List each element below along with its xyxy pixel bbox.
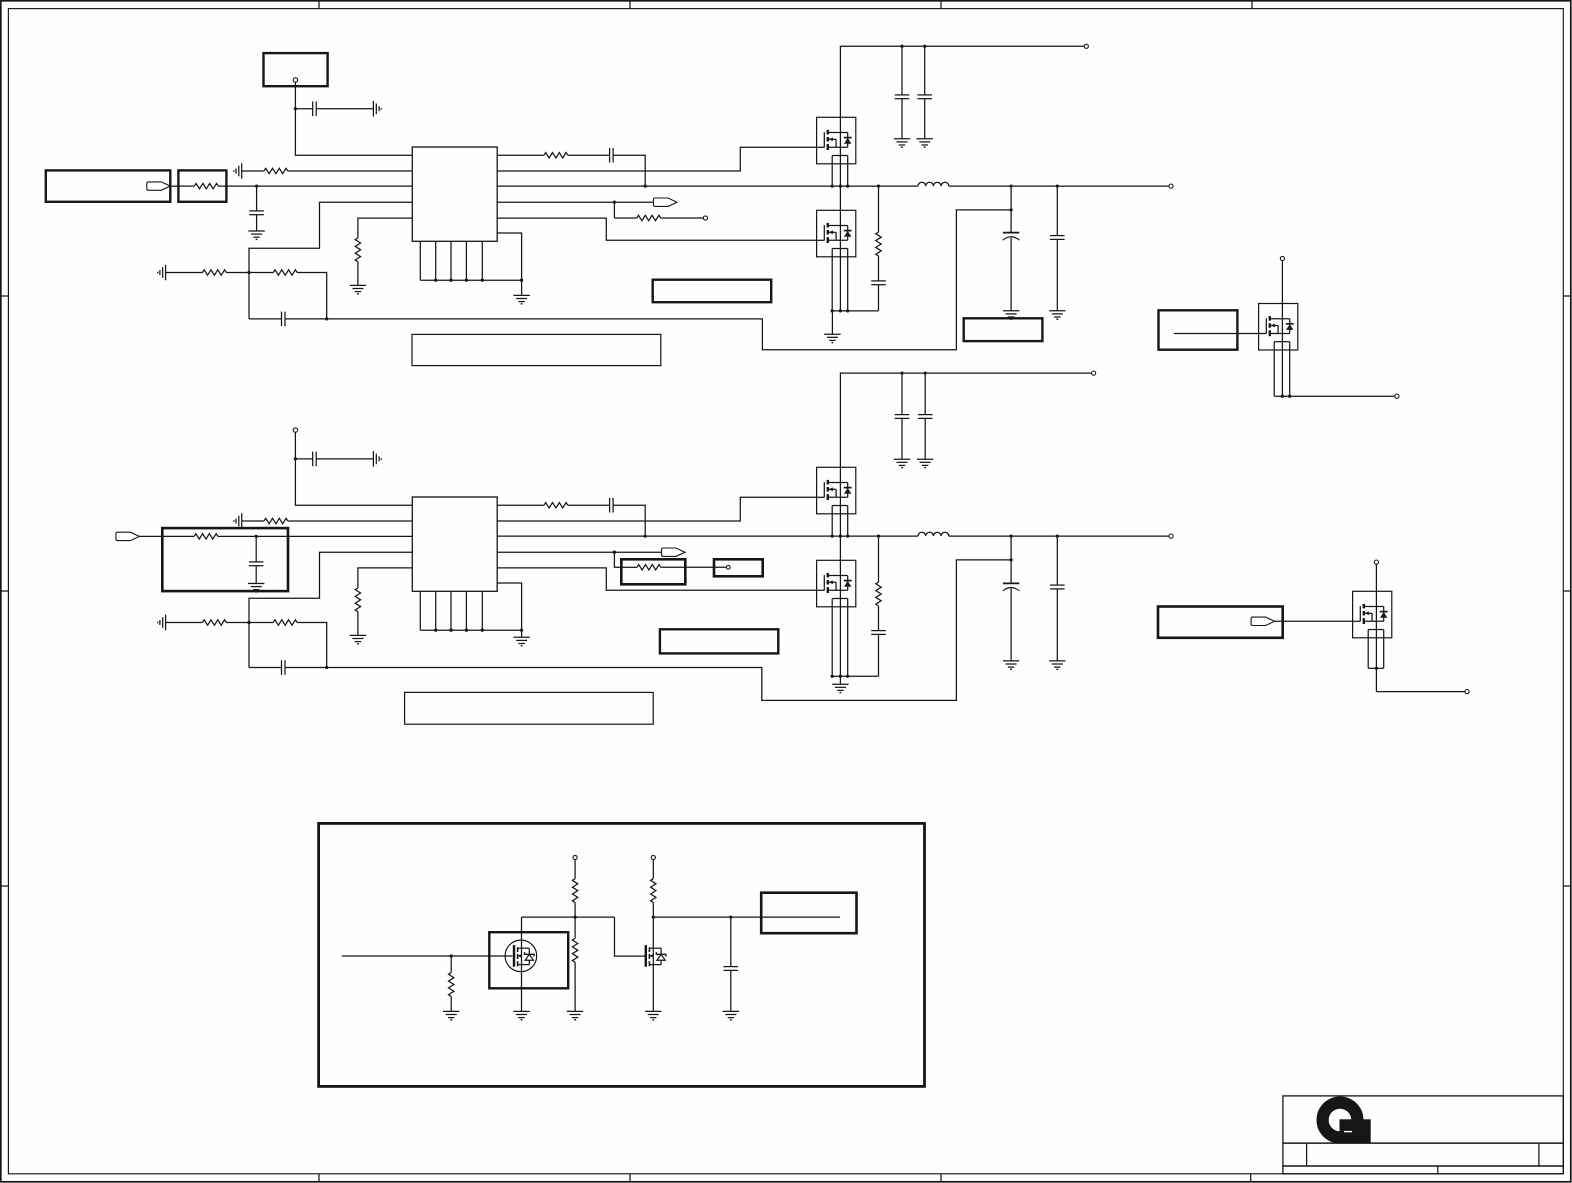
- wire T11 to R10: [574, 860, 576, 879]
- wire Q8 source to T10: [1376, 691, 1465, 693]
- wire gate line Q7: [1174, 333, 1259, 335]
- wire node K to C10: [730, 917, 732, 967]
- node A junction: [294, 107, 297, 110]
- IC bottom pins: [419, 241, 421, 280]
- wire chassis to R3a: [166, 622, 203, 624]
- Q7 source junctions: [1281, 395, 1284, 398]
- resistor R28: [876, 582, 881, 606]
- label box LB2: [964, 318, 1043, 341]
- wire to R7: [614, 217, 636, 219]
- wire R6 to C4a: [568, 504, 610, 506]
- node D junctiona: [325, 666, 328, 669]
- wire chassis to R1: [242, 170, 264, 172]
- capacitor C3: [281, 312, 283, 327]
- power mosfet module Q3: [817, 467, 856, 514]
- wire R2 to IC pin3: [218, 185, 412, 187]
- wire output2 to C29: [1056, 536, 1058, 585]
- wire Q8 center down: [1375, 630, 1377, 692]
- label box LB6: [761, 893, 856, 934]
- capacitor C3a: [281, 660, 283, 675]
- label box LB4: [1159, 310, 1238, 349]
- wire output to C9: [1056, 186, 1058, 236]
- ground bus under ICa: [420, 629, 521, 631]
- capacitor C29: [1050, 584, 1065, 586]
- wire C4 down to switch node: [613, 155, 645, 186]
- terminal T7: [1280, 256, 1284, 260]
- wire T5 to U2 pin1: [295, 432, 412, 505]
- wire T9 to Q8 drain: [1375, 564, 1377, 591]
- note box NB1: [412, 334, 661, 365]
- border zone tick left 1: [1, 295, 9, 297]
- wire switch node: [497, 185, 918, 187]
- node F junctiona: [644, 534, 647, 537]
- ground GND1: [248, 230, 264, 232]
- net label tag PG: [654, 198, 678, 206]
- wire R11 to ground: [574, 962, 576, 1011]
- wire input rail 2: [840, 373, 1091, 467]
- wire L2 to output: [949, 535, 1169, 537]
- title block row3: [1283, 1166, 1563, 1174]
- resistor R27: [637, 565, 661, 570]
- terminal T10: [1465, 690, 1469, 694]
- mosfet box Q5 outline: [489, 932, 568, 988]
- node B junction: [255, 184, 258, 187]
- border zone tick right 1: [1563, 295, 1571, 297]
- IC bottom pinsa: [419, 591, 421, 630]
- bus junctions: [434, 279, 437, 282]
- wire output2 to C28: [1010, 536, 1012, 583]
- note box NB2: [405, 692, 654, 724]
- capacitor C6: [917, 94, 932, 96]
- resistor R2: [194, 183, 218, 188]
- resistor R6: [544, 153, 568, 158]
- wire C10 to ground: [730, 970, 732, 1011]
- wire R7 to test point: [661, 217, 704, 219]
- ground GND3a: [513, 636, 529, 638]
- mosfet Q5: [513, 945, 515, 967]
- wire P1 to U1 pin1: [295, 82, 412, 155]
- ground GND26: [832, 683, 848, 685]
- ground GND25: [917, 458, 933, 460]
- terminal T5: [293, 428, 297, 432]
- output terminal T2: [1169, 534, 1173, 538]
- wire R22 to IC pin3: [218, 535, 412, 537]
- wire C22 to ground: [255, 566, 257, 584]
- wire node A2 to C21: [295, 458, 312, 460]
- ground GND4: [894, 138, 910, 140]
- wire T12 to R12: [652, 860, 654, 879]
- resistor R1a: [264, 518, 288, 523]
- connector P1: [264, 53, 328, 86]
- wire C4 down to switch nodea: [613, 505, 645, 536]
- wire C29 to ground: [1056, 589, 1058, 661]
- resistor R12: [651, 879, 656, 903]
- ground GND2: [350, 284, 366, 286]
- border zone tick bottom 1: [318, 1174, 320, 1182]
- wire rail to C6: [924, 46, 926, 95]
- capacitor C25: [895, 414, 910, 416]
- Q2 bus junctions: [831, 309, 834, 312]
- border zone tick bottom 2: [629, 1174, 631, 1182]
- wire FB1 left lead: [170, 185, 194, 187]
- net label tag G2: [1251, 617, 1275, 625]
- resistor R11: [572, 938, 577, 962]
- label box LB3: [660, 629, 778, 653]
- chassis ground AGND3a: [165, 615, 167, 631]
- divider terminal T11: [573, 855, 577, 859]
- Q2 source bus: [832, 310, 878, 312]
- wire gate line Q8: [1275, 620, 1353, 622]
- wire to R22: [164, 535, 195, 537]
- wire chassis to R1a: [242, 520, 264, 522]
- node D junction: [325, 317, 328, 320]
- wire IC to Q1 gate: [497, 147, 816, 171]
- node E junction: [1009, 208, 1012, 211]
- wire IC pin4 loopa: [249, 552, 412, 622]
- resistor R22: [194, 534, 218, 539]
- resistor R3a: [203, 620, 227, 625]
- wire R1a to IC: [288, 520, 413, 522]
- wire chassis to R3: [166, 272, 203, 274]
- wire output to C8: [1010, 186, 1012, 233]
- border zone tick right 2: [1563, 590, 1571, 592]
- border zone tick top 1: [318, 1, 320, 9]
- power mosfet module Q2: [817, 210, 856, 256]
- resistor R8: [876, 232, 881, 256]
- resistor R3: [203, 270, 227, 275]
- wire C28 to ground: [1010, 588, 1012, 661]
- company logo: [1323, 1103, 1358, 1138]
- Q4 bus junctions: [831, 675, 834, 678]
- Q8 source rectangle: [1367, 630, 1369, 669]
- wire IC pin4 loop: [249, 202, 412, 272]
- ground GND6: [824, 333, 840, 335]
- resistor R5: [355, 238, 360, 262]
- capacitor C7: [871, 280, 886, 282]
- resistor R4a: [273, 620, 297, 625]
- net label tag IN: [147, 182, 171, 190]
- capacitor C22: [249, 561, 264, 563]
- node K junction: [729, 915, 732, 918]
- wire C1 to chassis: [316, 108, 373, 110]
- wire C3 to node D: [285, 318, 327, 320]
- ground GND7: [1003, 310, 1019, 312]
- wire node A to C1: [295, 108, 312, 110]
- wire to C3: [249, 318, 282, 320]
- resistor box FB1: [178, 170, 226, 201]
- wire IC pin4 outa: [497, 551, 662, 553]
- mosfet module Q7: [1259, 304, 1298, 351]
- wire IC to Q3 gate: [497, 497, 816, 521]
- resistor R7: [637, 215, 661, 220]
- wire gate feed Q6: [615, 917, 647, 956]
- terminal T8: [1395, 394, 1399, 398]
- ground GND21: [248, 583, 264, 585]
- output terminal T1: [1169, 184, 1173, 188]
- wire C5 to ground: [901, 99, 903, 139]
- circuit enclosure box: [319, 823, 925, 1086]
- wire node C downa: [248, 623, 250, 668]
- net label tag PG2: [662, 548, 686, 556]
- border zone tick bottom 4: [1250, 1174, 1252, 1182]
- wire switch node 2 to Q4 drain: [839, 536, 841, 560]
- wire C8 to ground: [1010, 237, 1012, 310]
- node switch junctionsa: [831, 534, 834, 537]
- wire R28 to C27: [878, 606, 880, 631]
- node F junction: [644, 184, 647, 187]
- ground GND8: [1049, 310, 1065, 312]
- wire switch node to Q2 drain: [839, 186, 841, 210]
- mosfet Q5 circle: [505, 940, 537, 972]
- wire C3 to node Da: [285, 667, 327, 669]
- wire C26 to ground: [924, 418, 926, 459]
- capacitor C2: [249, 210, 264, 212]
- node J junction: [652, 915, 655, 918]
- wire R5 to ground: [357, 262, 359, 286]
- input box J1: [46, 170, 171, 201]
- title block row2 divider 1: [1306, 1143, 1308, 1166]
- wire feedback route: [327, 210, 1011, 350]
- chassis ground AGND1: [372, 101, 374, 117]
- wire IC out to R6a: [497, 504, 544, 506]
- node A2 junction: [294, 457, 297, 460]
- chassis ground AGND2: [241, 163, 243, 179]
- wire into FB3: [621, 566, 637, 568]
- wire node G2 down: [614, 552, 621, 567]
- wire rail2 to C26: [924, 373, 926, 415]
- wire IC to Q4 gate: [497, 568, 816, 590]
- ground bus under IC: [420, 279, 521, 281]
- rail junctions 2: [900, 371, 903, 374]
- test point TP2: [726, 565, 730, 569]
- buck controller U2: [412, 497, 497, 591]
- Q3 source wires: [831, 506, 833, 537]
- terminal pin of P1: [293, 78, 297, 82]
- chassis ground AGND3: [165, 265, 167, 281]
- pullup terminal T12: [651, 855, 655, 859]
- wire tag to box EN2: [139, 535, 163, 537]
- node G junction: [613, 201, 616, 204]
- wire R10 to node I: [574, 903, 576, 918]
- wire R27 to TP box: [661, 566, 727, 568]
- node B2 junction: [255, 535, 258, 538]
- wire C21 to chassis: [316, 458, 373, 460]
- polarized capacitor C8: [1003, 232, 1019, 234]
- resistor R10: [572, 879, 577, 903]
- wire node H to R9: [450, 956, 452, 973]
- terminal T9: [1374, 560, 1378, 564]
- wire input rail: [840, 46, 1084, 117]
- wire feedback route 2: [327, 560, 1011, 701]
- capacitor C26: [918, 414, 933, 416]
- wire R3-R4: [226, 272, 273, 274]
- wire rail to C5: [901, 46, 903, 95]
- resistor R4: [273, 270, 297, 275]
- wire IC to Q2 gate: [497, 218, 816, 240]
- wire R9 to ground: [450, 996, 452, 1011]
- ground GND27: [1003, 660, 1019, 662]
- capacitor C10: [724, 966, 739, 968]
- buck controller U1: [412, 147, 497, 241]
- resistor R6a: [544, 503, 568, 508]
- wire R8 to C7: [878, 256, 880, 281]
- wire Q5 drain up: [521, 917, 523, 948]
- wire node G down: [613, 202, 615, 218]
- polarized capacitor C28: [1003, 582, 1019, 584]
- Q4 source wires: [831, 599, 833, 677]
- wire IC out to R6: [497, 154, 544, 156]
- wire T7 to Q7 drain: [1281, 261, 1283, 304]
- wire C2 to ground: [256, 215, 258, 231]
- ground GND3: [513, 294, 529, 296]
- node C junctiona: [247, 621, 250, 624]
- wire IC pin4 out: [497, 201, 653, 203]
- Q1 source wires: [831, 156, 833, 187]
- resistor box FB3: [621, 559, 685, 584]
- wire L1 to output: [949, 185, 1169, 187]
- title block row2 divider 2: [1538, 1143, 1540, 1166]
- capacitor C4: [609, 148, 611, 163]
- wire node J to Q6 drain: [652, 917, 654, 948]
- wire to C3a: [249, 667, 282, 669]
- wire bus2 to ground: [839, 676, 841, 684]
- Q8 source junction: [1375, 667, 1378, 670]
- bus junctionsa: [434, 629, 437, 632]
- test point TP1: [703, 216, 707, 220]
- node H junction: [450, 954, 453, 957]
- wire IC pin5-lefta: [358, 568, 412, 588]
- inductor L1: [918, 182, 949, 186]
- wire Q6 source to ground: [652, 965, 654, 1012]
- wire node to R8: [878, 186, 880, 232]
- wire R6 to C4: [568, 154, 610, 156]
- inductor L2: [918, 532, 949, 536]
- ground GND12: [645, 1010, 661, 1012]
- rail junctions: [900, 45, 903, 48]
- title block outline: [1283, 1096, 1563, 1143]
- wire switch nodea: [497, 535, 918, 537]
- node switch junctions: [831, 184, 834, 187]
- wire rail2 to C25: [901, 373, 903, 415]
- power mosfet module Q1: [817, 117, 856, 164]
- wire drain rail B: [653, 916, 840, 918]
- border zone tick left 2: [1, 590, 9, 592]
- capacitor C1: [312, 102, 314, 117]
- wire R3-R4a: [226, 622, 273, 624]
- power mosfet module Q4: [817, 560, 856, 607]
- mosfet Q6: [645, 945, 647, 967]
- ground GND9: [443, 1010, 459, 1012]
- chassis ground AGND2a: [241, 513, 243, 529]
- capacitor C21: [312, 452, 314, 467]
- ground GND5: [917, 138, 933, 140]
- resistor R9: [449, 973, 454, 997]
- capacitor C9: [1050, 235, 1065, 237]
- chassis ground AGND5: [372, 451, 374, 467]
- mosfet module Q8: [1353, 591, 1392, 638]
- wire C25 to ground: [901, 418, 903, 459]
- wire C7 to bus: [878, 285, 880, 311]
- wire R4 to cornera: [297, 623, 327, 668]
- Q7 source wires: [1273, 342, 1275, 397]
- test point box FB4: [714, 559, 763, 576]
- wire node I to R11: [574, 917, 576, 938]
- wire drain rail A: [522, 916, 615, 918]
- output cap junctions: [1009, 184, 1012, 187]
- rail terminal T6: [1092, 371, 1096, 375]
- border zone tick left 3: [1, 885, 9, 887]
- wire node C down: [248, 273, 250, 319]
- node C junction: [247, 271, 250, 274]
- wire node B2 to C22: [255, 536, 257, 562]
- ground GND24: [894, 458, 910, 460]
- wire Q7 source to T8: [1274, 395, 1395, 397]
- net label tag IN2: [116, 532, 139, 540]
- node E2 junction: [1009, 558, 1012, 561]
- output cap junctionsa: [1009, 534, 1012, 537]
- wire node2 to R28: [878, 536, 880, 582]
- ground GND28: [1049, 660, 1065, 662]
- border zone tick bottom 3: [940, 1174, 942, 1182]
- border zone tick top 3: [940, 1, 942, 9]
- wire IC pin6 to bus: [497, 233, 521, 295]
- capacitor C4a: [609, 498, 611, 513]
- wire Q5 source to ground: [521, 965, 523, 1012]
- title block row3 divider: [1437, 1166, 1439, 1174]
- wire IC pin5-left: [358, 218, 412, 238]
- Q2 source wires: [831, 249, 833, 311]
- wire R12 to node J: [652, 903, 654, 918]
- label box LB1: [653, 280, 772, 303]
- title block row2: [1283, 1143, 1563, 1166]
- wire bus to ground: [831, 311, 833, 334]
- wire IC pin6 to busa: [497, 583, 521, 637]
- node G junctiona: [613, 551, 616, 554]
- wire C27 to bus2: [878, 634, 880, 676]
- capacitor C5: [895, 94, 910, 96]
- wire C9 to ground: [1056, 239, 1058, 310]
- border zone tick top 2: [629, 1, 631, 9]
- Q4 source bus: [832, 675, 878, 677]
- rail terminal T3: [1084, 44, 1088, 48]
- label box LB5: [1158, 607, 1283, 638]
- wire R1 to IC: [288, 170, 413, 172]
- wire input to Q5 gate: [342, 955, 513, 957]
- wire R4 to corner: [297, 273, 327, 319]
- input filter box FB2: [162, 528, 288, 591]
- node I junction: [573, 915, 576, 918]
- ground GND2a: [350, 634, 366, 636]
- wire C6 to ground: [924, 99, 926, 139]
- wire R5 to grounda: [357, 612, 359, 636]
- ground GND13: [723, 1010, 739, 1012]
- resistor R5a: [355, 588, 360, 612]
- ground GND10: [513, 1010, 529, 1012]
- border zone tick top 4: [1251, 1, 1253, 9]
- wire node B to C2: [256, 186, 258, 211]
- capacitor C27: [871, 630, 886, 632]
- resistor R1: [264, 168, 288, 173]
- border zone tick right 3: [1563, 885, 1571, 887]
- ground GND11: [567, 1010, 583, 1012]
